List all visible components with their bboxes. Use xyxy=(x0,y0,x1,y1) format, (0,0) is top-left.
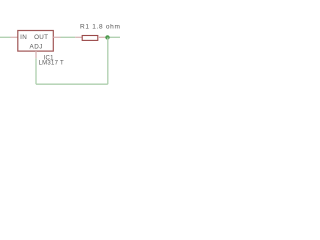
wire bottom horizontal xyxy=(36,83,108,85)
wire vertical left riser to ADJ xyxy=(35,58,37,84)
pin ADJ stub of IC1 xyxy=(35,51,37,58)
wire net to IN pin (left edge) xyxy=(0,36,11,38)
svg-text:ADJ: ADJ xyxy=(30,43,43,50)
resistor R1 left lead xyxy=(75,36,82,38)
wire net right of resistor to edge xyxy=(105,36,120,38)
svg-text:IN: IN xyxy=(20,34,27,41)
svg-text:OUT: OUT xyxy=(34,34,48,41)
pin OUT stub of IC1 xyxy=(53,36,60,38)
resistor R1 right lead xyxy=(98,36,105,38)
wire vertical right drop xyxy=(107,37,109,84)
svg-text:LM317 T: LM317 T xyxy=(39,60,64,66)
wire net OUT to resistor xyxy=(61,36,76,38)
op-amp / regulator IC1 body xyxy=(18,31,54,52)
resistor R1 body xyxy=(82,36,98,41)
pin IN stub of U/IC1 xyxy=(11,36,18,38)
junction node dot xyxy=(105,35,109,39)
svg-text:R1 1.8 ohm: R1 1.8 ohm xyxy=(80,24,120,31)
